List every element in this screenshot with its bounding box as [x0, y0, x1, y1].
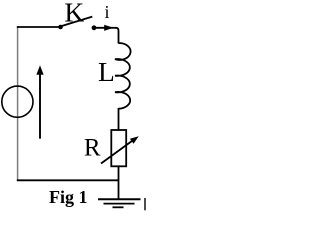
svg-text:Fig 1: Fig 1	[49, 187, 88, 207]
svg-text:R: R	[84, 135, 101, 162]
svg-text:K: K	[64, 0, 84, 27]
svg-text:L: L	[98, 56, 115, 87]
svg-text:i: i	[105, 2, 110, 22]
